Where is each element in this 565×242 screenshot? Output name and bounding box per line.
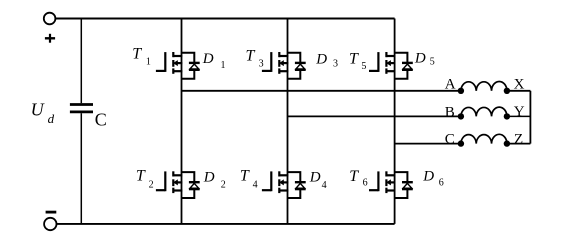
wire Z to neutral bus xyxy=(507,143,531,145)
svg-text:X: X xyxy=(514,76,525,92)
svg-text:5: 5 xyxy=(430,56,435,67)
svg-text:D: D xyxy=(202,51,214,67)
svg-text:B: B xyxy=(445,104,455,120)
svg-text:A: A xyxy=(445,76,456,92)
negative input terminal xyxy=(44,218,56,230)
svg-text:T: T xyxy=(246,47,256,64)
svg-text:D: D xyxy=(309,169,321,185)
wire phase A output xyxy=(182,90,461,92)
label D4 xyxy=(309,169,327,191)
label T5 xyxy=(349,50,366,71)
label T1 xyxy=(132,46,151,68)
svg-text:4: 4 xyxy=(253,180,258,191)
transistor T3 xyxy=(262,52,288,74)
svg-text:D: D xyxy=(414,51,426,67)
label D6 xyxy=(422,168,444,188)
inductor winding C-Z with junction dots xyxy=(458,134,510,147)
wire phase C output xyxy=(395,143,461,145)
svg-text:T: T xyxy=(136,167,146,184)
transistor T1 xyxy=(156,52,182,74)
diode D1 xyxy=(182,53,200,79)
label D2 xyxy=(203,169,226,190)
label T3 xyxy=(246,47,264,69)
svg-text:3: 3 xyxy=(259,59,264,70)
svg-text:T: T xyxy=(349,168,359,185)
diode D2 xyxy=(182,172,200,198)
label D1 xyxy=(202,51,226,71)
svg-text:T: T xyxy=(240,167,250,184)
minus sign label xyxy=(46,211,57,214)
wire leg 2 (phase B half-bridge) xyxy=(287,19,289,224)
transistor T5 xyxy=(369,52,395,74)
svg-text:2: 2 xyxy=(149,180,154,191)
transistor T2 xyxy=(156,171,182,193)
diode D3 xyxy=(288,53,306,79)
wire top DC rail xyxy=(55,18,394,20)
transistor T4 xyxy=(262,171,288,193)
wire leg 1 (phase A half-bridge) xyxy=(181,19,183,224)
label D5 xyxy=(414,51,435,68)
label D3 xyxy=(315,52,338,70)
label Ud (DC source voltage) xyxy=(31,99,55,125)
svg-text:1: 1 xyxy=(146,56,151,67)
inductor winding B-Y with junction dots xyxy=(458,107,510,120)
svg-text:C: C xyxy=(95,110,107,130)
inductor winding A-X with junction dots xyxy=(458,82,510,95)
svg-text:C: C xyxy=(445,131,455,147)
wire bottom DC rail xyxy=(57,223,395,225)
transistor T6 xyxy=(369,171,395,193)
svg-text:1: 1 xyxy=(221,60,226,71)
svg-text:T: T xyxy=(132,46,142,63)
label T2 xyxy=(136,167,154,190)
capacitor C xyxy=(70,19,93,224)
wire Y to neutral bus xyxy=(507,115,531,117)
svg-text:Z: Z xyxy=(514,131,523,147)
label T4 xyxy=(240,167,258,190)
svg-text:d: d xyxy=(48,111,55,126)
plus sign label xyxy=(45,34,55,43)
svg-text:6: 6 xyxy=(363,178,368,189)
svg-text:D: D xyxy=(422,168,434,184)
positive input terminal xyxy=(44,13,56,25)
svg-text:2: 2 xyxy=(221,180,226,191)
diode D5 xyxy=(395,53,413,79)
svg-text:T: T xyxy=(349,50,359,67)
diode D4 xyxy=(288,172,306,198)
svg-text:4: 4 xyxy=(322,180,327,191)
svg-text:Y: Y xyxy=(514,104,525,120)
wire X to neutral bus xyxy=(507,90,531,92)
svg-text:6: 6 xyxy=(439,178,444,189)
svg-text:5: 5 xyxy=(361,61,366,72)
wire neutral bus (star point) xyxy=(529,91,531,144)
wire phase B output xyxy=(288,115,461,117)
diode D6 xyxy=(395,172,413,198)
svg-text:D: D xyxy=(203,169,215,185)
wire leg 3 (phase C half-bridge) xyxy=(394,19,396,224)
svg-text:U: U xyxy=(31,99,45,119)
svg-text:D: D xyxy=(315,52,327,68)
label T6 xyxy=(349,168,367,188)
svg-text:3: 3 xyxy=(333,59,338,70)
